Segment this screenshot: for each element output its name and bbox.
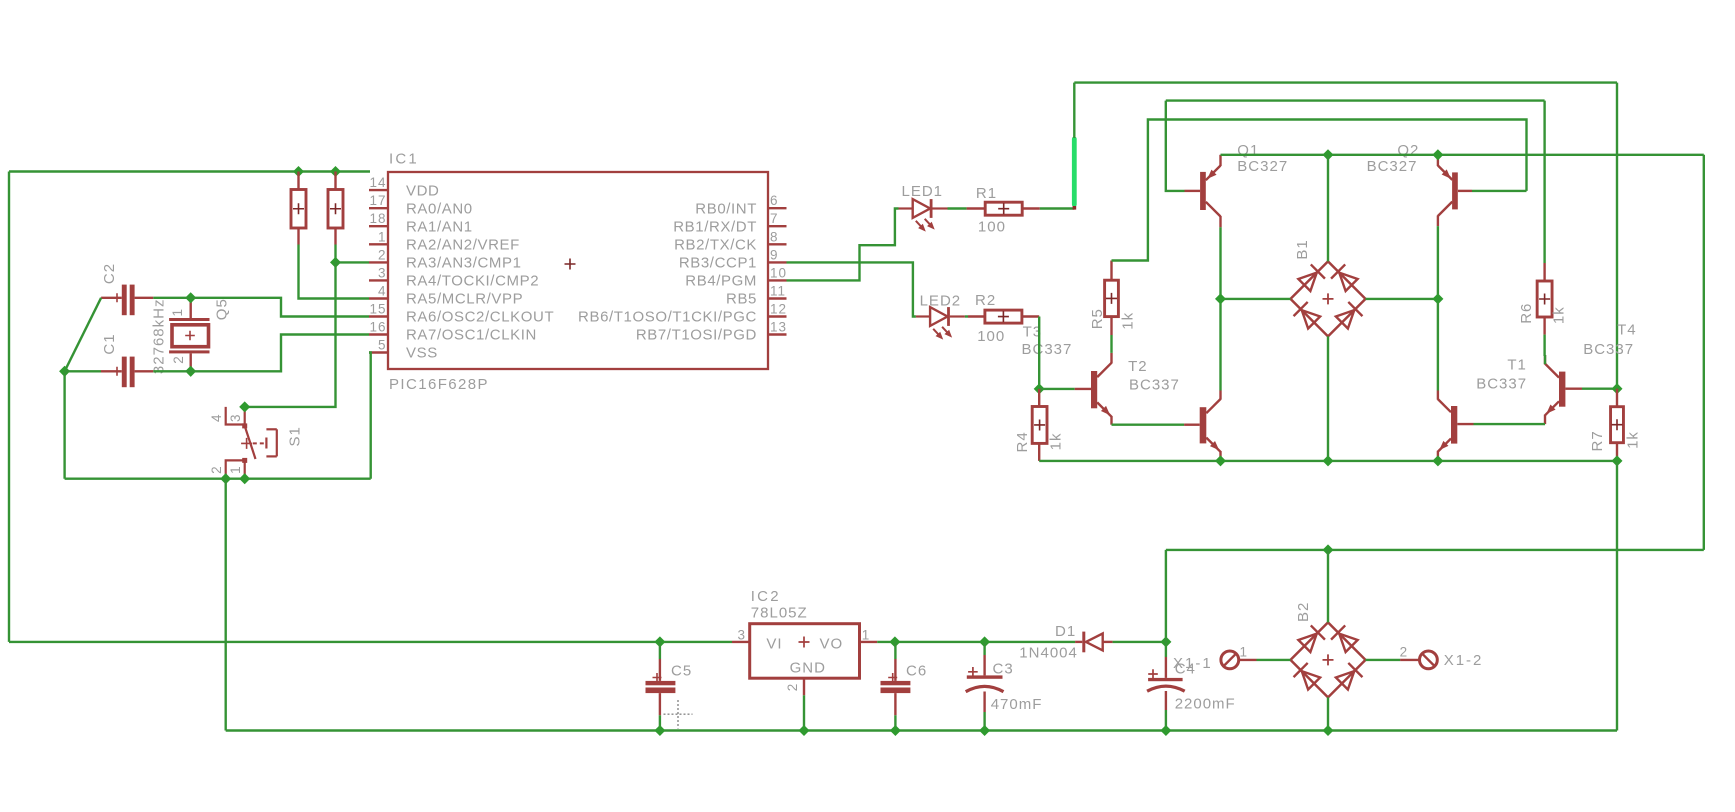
wire H-bridge bottom rail [1039,460,1617,462]
svg-text:C1: C1 [101,333,118,354]
node emitter rail junction at B1 [1322,149,1333,160]
svg-text:100: 100 [978,219,1006,236]
wire T1 base to R7 node [1582,388,1617,390]
node 5V rail junction C5 [654,636,665,647]
LED LED2 [916,307,965,340]
wire ground net left vertical [63,371,65,478]
wire highlighted net segment [1072,139,1077,205]
IC1 pin 10 RB4/PGM [685,265,787,289]
switch S1 lever and actuator [241,426,277,459]
IC1 pin 15 RA6/OSC2/CLKOUT [369,302,554,326]
switch S1 contact pins 2 and 1 [226,458,248,479]
IC1 pin 18 RA1/AN1 [369,211,473,235]
svg-text:PIC16F628P: PIC16F628P [389,376,489,393]
resistor pullup B (RA3) [328,172,343,245]
svg-text:R4: R4 [1014,431,1031,452]
node GND rail junction C4 [1160,725,1171,736]
svg-text:C5: C5 [671,663,692,680]
resistor R6 [1537,263,1552,335]
capacitor C2 [101,285,153,316]
IC1 pin 4 RA5/MCLR/VPP [369,284,523,308]
svg-text:10: 10 [770,265,787,280]
node crystal top junction [185,292,196,303]
IC1 pin 17 RA0/AN0 [369,193,473,217]
node C4 top junction [1160,636,1171,647]
node GND rail junction B2 [1322,725,1333,736]
svg-text:RB2/TX/CK: RB2/TX/CK [674,237,757,254]
resistor pullup A (MCLR) [291,172,306,245]
svg-text:100: 100 [977,328,1005,345]
capacitor C6 [881,642,911,731]
wire LED2 to R2 [965,315,968,317]
wire VDD rail top-left [9,172,370,642]
svg-text:C6: C6 [906,663,927,680]
wire base node to T2 base [1039,388,1075,390]
node VDD junction at R pullup 2 [330,166,341,177]
IC1 pin 9 RB3/CCP1 [679,247,787,271]
svg-text:RB4/PGM: RB4/PGM [685,273,757,290]
wire B1 top to emitter rail [1327,155,1329,262]
svg-text:1: 1 [378,229,387,244]
svg-text:1N4004: 1N4004 [1019,645,1078,662]
node bottom rail junction T4 [1432,455,1443,466]
capacitor C3 polarized [966,642,1004,731]
svg-text:2: 2 [378,247,387,262]
connector X1-1 [1221,651,1257,669]
svg-text:GND: GND [790,660,826,677]
svg-text:78L05Z: 78L05Z [751,605,808,622]
IC1 pin 11 RB5 [726,284,786,308]
IC1 pin 5 VSS [369,338,438,362]
wire XTAL1 net to RA6 pin 15 [153,298,369,317]
svg-text:1k: 1k [1624,431,1641,449]
IC1 pin 8 RB2/TX/CK [674,229,786,253]
svg-text:12: 12 [770,302,787,317]
node GND rail junction C3 [979,725,990,736]
svg-text:1: 1 [228,465,243,474]
svg-text:C2: C2 [101,263,118,284]
svg-text:BC327: BC327 [1237,158,1288,175]
resistor R7 [1611,389,1624,461]
svg-text:1k: 1k [1119,312,1136,330]
IC1 pin 16 RA7/OSC1/CLKIN [369,320,537,344]
svg-text:Q5: Q5 [213,298,230,320]
transistor T4 BC337 bridge low-right [1438,391,1474,461]
svg-text:3: 3 [228,413,243,422]
svg-text:VSS: VSS [406,345,438,362]
svg-text:3: 3 [378,265,387,280]
bridge rectifier B2 [1291,622,1366,697]
svg-text:6: 6 [770,193,779,208]
svg-text:RB7/T1OSI/PGD: RB7/T1OSI/PGD [636,327,757,344]
svg-text:5: 5 [378,338,387,353]
svg-text:S1: S1 [286,426,303,446]
svg-text:8: 8 [770,229,779,244]
svg-text:RA1/AN1: RA1/AN1 [406,218,473,235]
capacitor C4 polarized [1147,642,1185,731]
svg-text:RA5/MCLR/VPP: RA5/MCLR/VPP [406,291,523,308]
IC2 pin 3 stub [732,628,750,643]
node S1 top junction [239,401,250,412]
wire B2 plus rail [1166,549,1704,551]
wire D1 to C4 node [1113,641,1166,643]
svg-text:17: 17 [369,193,386,208]
svg-text:RB6/T1OSO/T1CKI/PGC: RB6/T1OSO/T1CKI/PGC [578,309,757,326]
svg-text:RA7/OSC1/CLKIN: RA7/OSC1/CLKIN [406,327,537,344]
transistor T1 BC337 [1545,355,1582,424]
svg-text:C3: C3 [993,661,1014,678]
svg-text:RB0/INT: RB0/INT [695,200,757,217]
wire C2 left to C1 left diagonal [65,298,102,372]
resistor R4 [1032,389,1047,461]
node highlight end dot [1073,206,1077,210]
wire Q1 collector column [1219,227,1221,390]
wire bottom rail down to GND rail [1616,461,1618,731]
bridge rectifier B1 [1291,261,1366,336]
wire IC2 GND to rail [803,695,805,730]
IC1 pin 7 RB1/RX/DT [673,211,786,235]
svg-text:RB1/RX/DT: RB1/RX/DT [673,218,757,235]
svg-text:BC337: BC337 [1129,377,1180,394]
svg-text:BC337: BC337 [1022,341,1073,358]
node B1 right junction [1432,293,1443,304]
svg-text:IC2: IC2 [751,588,781,605]
svg-text:9: 9 [770,247,779,262]
svg-text:R5: R5 [1089,308,1106,329]
wire RB3 pin 9 to LED2 [787,262,916,316]
svg-text:T2: T2 [1128,358,1148,375]
wire R1 to top rail [1040,137,1075,209]
svg-text:R7: R7 [1589,430,1606,451]
wire XTAL2 net to RA7 pin 16 [153,335,369,372]
svg-text:1: 1 [862,628,871,643]
svg-text:Q2: Q2 [1397,142,1419,159]
svg-text:1: 1 [170,308,185,317]
transistor T2 BC337 [1075,353,1112,425]
svg-text:RA0/AN0: RA0/AN0 [406,200,473,217]
svg-text:BC337: BC337 [1583,341,1634,358]
wire VO rail [877,641,1075,643]
wire R2 down to T2 base node [1038,317,1040,389]
svg-text:D1: D1 [1055,623,1076,640]
node S1 bottom junction A [220,473,231,484]
svg-text:X1-1: X1-1 [1173,655,1213,672]
IC1 pin 3 RA4/TOCKI/CMP2 [369,265,539,289]
resistor R1 [967,202,1040,215]
svg-text:2200mF: 2200mF [1175,696,1236,713]
wire Q2 collector column [1437,226,1439,390]
capacitor C1 [101,357,153,388]
IC1 PIC16F628P microcontroller box [388,172,768,369]
diode D1 1N4004 [1075,632,1113,653]
svg-text:RA6/OSC2/CLKOUT: RA6/OSC2/CLKOUT [406,309,554,326]
svg-text:2: 2 [209,465,224,474]
node C1-left junction [59,366,70,377]
svg-text:1k: 1k [1048,432,1065,450]
svg-text:VO: VO [820,636,844,653]
svg-text:T1: T1 [1507,357,1527,374]
svg-text:R2: R2 [975,292,996,309]
wire C4 node up to B2 plus rail [1165,550,1167,642]
IC1 pin 14 VDD [369,175,439,199]
svg-text:IC1: IC1 [389,151,419,168]
transistor Q2 BC327 bridge top-right [1438,155,1472,226]
svg-text:T4: T4 [1617,322,1637,339]
svg-text:15: 15 [369,302,386,317]
wire B2 top [1327,550,1329,623]
node emitter rail junction at Q2 [1432,149,1443,160]
svg-text:2: 2 [1400,645,1409,660]
IC2 pin 2 GND stub [785,678,804,695]
node RA3 junction [330,257,341,268]
IC1 pin 1 RA2/AN2/VREF [369,229,520,253]
IC1 pin 2 RA3/AN3/CMP1 [369,247,522,271]
wire GND bottom rail [226,729,1617,731]
svg-text:32768kHz: 32768kHz [151,299,168,375]
node crystal bottom junction [185,366,196,377]
connector X1-2 [1400,651,1437,669]
svg-text:RA3/AN3/CMP1: RA3/AN3/CMP1 [406,255,522,272]
wire R5 top to Q2 base (top rail 3) [1112,120,1527,261]
transistor Q1 BC327 bridge top-left [1185,155,1221,228]
wire resistor B to RA3 pin 2 [334,245,336,263]
wire T2 collector to R5 [1110,335,1112,353]
wire ground net down to GND rail [224,479,226,731]
svg-text:Q1: Q1 [1237,142,1259,159]
IC2 origin cross [799,637,810,648]
svg-text:16: 16 [369,320,386,335]
node GND rail junction C6 [890,725,901,736]
wire B2 right to X1-2 [1366,659,1401,661]
node VO junction C6 [889,636,900,647]
svg-text:4: 4 [209,413,224,422]
svg-text:B1: B1 [1294,239,1311,259]
wire B2 bottom to GND rail [1327,697,1329,730]
svg-text:7: 7 [770,211,779,226]
node T2 base junction [1034,383,1045,394]
wire R6 bottom to T1 collector [1543,335,1545,356]
wire ground net bottom horizontal to VSS [65,353,371,479]
svg-text:1: 1 [1240,645,1249,660]
voltage regulator IC2 78L05Z box [750,624,860,679]
svg-text:LED2: LED2 [920,293,962,310]
capacitor C5 [646,642,676,731]
svg-text:VI: VI [766,636,782,653]
IC1 pin 12 RB6/T1OSO/T1CKI/PGC [578,302,787,326]
svg-text:B2: B2 [1295,602,1312,622]
svg-text:470mF: 470mF [991,696,1043,713]
svg-text:X1-2: X1-2 [1444,652,1484,669]
wire X1-1 to B2 left [1257,659,1291,661]
node GND rail junction C5 [654,725,665,736]
svg-text:RA4/TOCKI/CMP2: RA4/TOCKI/CMP2 [406,273,539,290]
node bottom rail junction B1 [1322,455,1333,466]
svg-text:2: 2 [171,355,186,364]
wire 5V rail to IC2 VI [9,641,732,643]
resistor R2 [968,310,1039,323]
node GND rail junction IC2 GND [798,725,809,736]
svg-text:RA2/AN2/VREF: RA2/AN2/VREF [406,237,520,254]
svg-text:BC327: BC327 [1367,158,1418,175]
crystal Q5 32768kHz [169,298,209,372]
svg-text:RB3/CCP1: RB3/CCP1 [679,255,757,272]
wire C1 junction short [65,370,101,372]
wire B1 right to Q2/T4 column [1366,298,1438,300]
wire RA3 junction to pin 2 [336,261,370,263]
mouse cursor crosshair [664,700,693,729]
wire resistor A to RA5/MCLR pin 4 [299,245,370,299]
wire RB4 pin 10 to LED1 [787,209,899,281]
node bottom rail junction T3 [1215,455,1226,466]
svg-text:2: 2 [785,683,800,692]
node VO junction C3 [979,636,990,647]
svg-text:R1: R1 [976,185,997,202]
wire B1 bottom to low rail [1327,336,1329,461]
wire H-bridge emitter rail [1221,155,1704,550]
wire Q1 base from rail 2 [1166,101,1545,263]
node T1 base junction [1611,383,1622,394]
node VDD junction at R pullup 1 [293,166,304,177]
svg-text:14: 14 [369,175,386,190]
svg-text:3: 3 [737,628,746,643]
svg-text:11: 11 [770,284,786,299]
wire LED1 to R1 [948,207,967,209]
IC1 pin 6 RB0/INT [695,193,786,217]
LED LED1 [899,199,948,232]
svg-text:R6: R6 [1518,303,1535,324]
svg-text:18: 18 [369,211,386,226]
switch S1 contact pins 4 and 3 [226,407,248,429]
wire B1 left to Q1/T3 column [1221,298,1291,300]
wire T1 emitter to T4 base [1474,423,1546,425]
svg-text:VDD: VDD [406,182,439,199]
wire RA3 down to switch S1 [245,262,336,407]
svg-text:BC337: BC337 [1476,376,1527,393]
transistor T3 BC337 bridge low-left [1184,391,1220,461]
IC2 pin 1 stub [860,628,878,643]
node B1 left junction [1215,293,1226,304]
node B2 plus junction [1322,544,1333,555]
svg-text:RB5: RB5 [726,291,757,308]
node bottom rail junction R7 [1611,455,1622,466]
svg-text:1k: 1k [1550,306,1567,324]
wire T2 emitter to T3 base [1112,424,1185,426]
wire top rail 1 (R1 to T1 base column) [1074,83,1617,389]
svg-text:13: 13 [770,320,787,335]
IC1 pin 13 RB7/T1OSI/PGD [636,320,787,344]
svg-text:LED1: LED1 [902,183,944,200]
node S1 bottom junction B [239,473,250,484]
resistor R5 [1105,261,1119,336]
svg-text:4: 4 [378,284,387,299]
